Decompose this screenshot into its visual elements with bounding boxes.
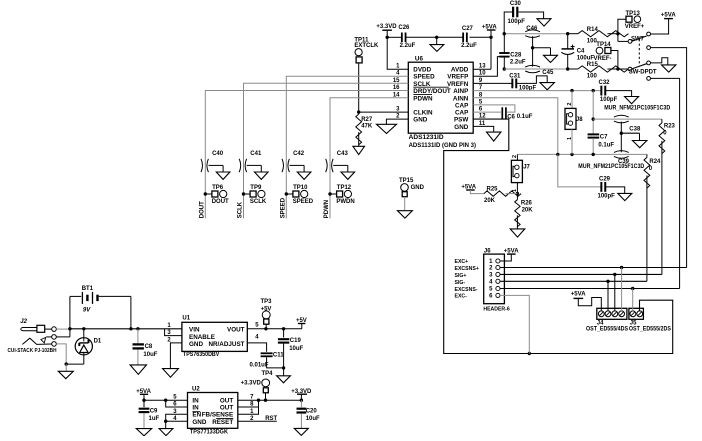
svg-text:C42: C42 xyxy=(293,151,305,157)
svg-text:VIN: VIN xyxy=(189,326,200,333)
capacitor C45 (NFM feedthrough) xyxy=(525,65,540,67)
svg-text:SPEED: SPEED xyxy=(413,74,435,81)
svg-text:TP3: TP3 xyxy=(260,299,272,305)
svg-text:J6: J6 xyxy=(484,248,491,254)
capacitor C11 0.01uF xyxy=(261,352,273,354)
testpoint TP9 SCLK xyxy=(242,192,245,195)
svg-text:SIG-: SIG- xyxy=(455,280,466,286)
wire AINN pin8 xyxy=(473,98,558,155)
svg-text:GND: GND xyxy=(189,341,203,348)
ground switch xyxy=(662,65,676,72)
svg-text:20K: 20K xyxy=(484,198,496,204)
capacitor C7 0.1uF xyxy=(588,133,600,135)
wire SPEED bus xyxy=(286,76,408,218)
wire R24 to SIG- net xyxy=(646,175,648,281)
svg-text:MUR_NFM21PC105F1C3D: MUR_NFM21PC105F1C3D xyxy=(604,105,671,111)
wire SCLK bus xyxy=(244,83,409,218)
svg-text:RESET: RESET xyxy=(212,419,233,426)
resistor R26 20K xyxy=(516,194,518,200)
switch mechanical link (dashed) xyxy=(638,39,640,66)
svg-text:20K: 20K xyxy=(522,208,534,214)
ground mid decoupling node xyxy=(436,37,438,44)
testpoint TP12 PWDN xyxy=(328,192,331,195)
svg-text:U2: U2 xyxy=(192,387,200,393)
svg-text:U1: U1 xyxy=(182,316,190,322)
svg-text:100: 100 xyxy=(587,74,598,80)
wire SIG+ net (J6 pin3) xyxy=(500,273,662,275)
svg-text:SW-DPDT: SW-DPDT xyxy=(629,70,657,76)
wire PSW net to J5 xyxy=(444,119,673,353)
svg-text:C7: C7 xyxy=(600,134,608,140)
svg-text:J2: J2 xyxy=(20,319,27,325)
resistor R27 47K xyxy=(358,112,360,114)
resistor R14 100 xyxy=(568,33,578,35)
svg-text:2.2uF: 2.2uF xyxy=(400,43,416,49)
svg-text:EXC-: EXC- xyxy=(455,294,468,300)
wire battery- down to jack xyxy=(69,296,71,337)
svg-text:CUI-STACK PJ-102BH: CUI-STACK PJ-102BH xyxy=(8,348,57,354)
svg-text:TP12: TP12 xyxy=(337,185,352,191)
wire VREF- net xyxy=(504,68,567,70)
svg-text:+5V: +5V xyxy=(261,307,272,313)
ground U1 xyxy=(163,369,179,378)
wire R27 to ground xyxy=(358,132,360,146)
svg-text:C26: C26 xyxy=(398,25,410,31)
svg-text:100pF: 100pF xyxy=(598,194,616,200)
wire EXCSNS- net (J6 pin5) xyxy=(500,288,680,290)
capacitor C9 1uF xyxy=(143,400,145,407)
svg-text:FB/SENSE: FB/SENSE xyxy=(202,412,234,419)
svg-text:PDWN: PDWN xyxy=(324,200,330,218)
svg-text:RST: RST xyxy=(265,416,277,422)
wire C42 to ground xyxy=(290,164,305,166)
svg-text:+5VA: +5VA xyxy=(661,13,676,19)
svg-text:C41: C41 xyxy=(250,151,262,157)
svg-text:TP4: TP4 xyxy=(261,371,273,377)
ground C20 xyxy=(294,428,308,435)
svg-text:BT1: BT1 xyxy=(82,286,94,292)
svg-text:0.01uF: 0.01uF xyxy=(250,363,269,369)
capacitor C4 100uF xyxy=(567,34,569,49)
resistor R25 20K xyxy=(484,191,521,196)
wire +5VA to R25 xyxy=(470,190,484,194)
svg-text:R25: R25 xyxy=(487,186,499,192)
wire EXC- (J6 pin6) to PSW net xyxy=(500,295,529,353)
svg-text:TP13: TP13 xyxy=(626,11,641,17)
svg-text:OUT: OUT xyxy=(220,405,233,412)
svg-text:SW7: SW7 xyxy=(631,36,645,42)
svg-text:OST_ED555/4DS: OST_ED555/4DS xyxy=(586,326,628,332)
wire C31 to ground xyxy=(517,76,547,84)
capacitor C30 100pF xyxy=(512,7,514,18)
svg-text:TPS76350DBV: TPS76350DBV xyxy=(183,352,219,358)
wire VREFP pin10 to C28 xyxy=(473,57,500,77)
svg-text:C32: C32 xyxy=(598,80,610,86)
ground U6 pin11 xyxy=(487,132,501,141)
resistor R15 100 xyxy=(568,68,578,70)
svg-text:GND: GND xyxy=(454,124,468,131)
svg-text:EN: EN xyxy=(192,412,201,419)
svg-text:R27: R27 xyxy=(361,117,373,123)
svg-text:C45: C45 xyxy=(542,70,554,76)
svg-text:C31: C31 xyxy=(509,73,521,79)
wire U2 IN pin6 tie xyxy=(166,400,188,407)
svg-text:ENABLE: ENABLE xyxy=(189,334,215,341)
wire AINP filter net xyxy=(593,118,662,120)
svg-text:SCLK: SCLK xyxy=(238,201,244,218)
svg-text:C27: C27 xyxy=(462,26,474,32)
svg-text:EXC+: EXC+ xyxy=(455,259,469,265)
wire C26 to C27 mid node xyxy=(406,36,462,38)
svg-text:AINP: AINP xyxy=(453,88,468,95)
capacitor C26 2.2uF xyxy=(401,33,403,43)
svg-text:R26: R26 xyxy=(521,201,533,207)
capacitor C40 xyxy=(201,159,203,172)
wire TP15 to ground xyxy=(404,197,406,211)
svg-text:C40: C40 xyxy=(212,151,224,157)
svg-text:GND: GND xyxy=(413,117,427,124)
capacitor C31 100pF xyxy=(511,79,513,89)
wire switch throw B2 to EXCSNS- column xyxy=(651,78,680,288)
svg-text:0.1uF: 0.1uF xyxy=(517,114,533,120)
wire U6 GND pin2 xyxy=(386,119,408,124)
wire switch throw A2 to EXCSNS+ column xyxy=(651,48,687,268)
ground C32 xyxy=(625,97,639,104)
ground input xyxy=(58,371,73,378)
svg-text:C8: C8 xyxy=(145,344,153,350)
svg-text:U6: U6 xyxy=(415,56,424,63)
wire CAP pin5 xyxy=(473,105,515,112)
svg-text:+3.3VD: +3.3VD xyxy=(241,381,262,387)
capacitor C29 100pF xyxy=(600,182,602,192)
wire R26 to ground xyxy=(516,215,518,229)
connector J4 OST_ED555/4DS xyxy=(597,308,627,319)
wire +5VA to U2 IN xyxy=(143,394,145,400)
svg-text:NR/ADJUST: NR/ADJUST xyxy=(208,341,244,348)
ground C46/C45 tap xyxy=(544,55,558,62)
svg-text:ADS1131ID (GND PIN 3): ADS1131ID (GND PIN 3) xyxy=(409,143,476,149)
wire C41 to ground xyxy=(247,164,262,166)
wire U2 EN pin3 xyxy=(166,414,188,421)
capacitor C19 10uF xyxy=(283,329,285,338)
svg-text:AINN: AINN xyxy=(453,95,469,102)
svg-text:C20: C20 xyxy=(306,409,318,415)
svg-text:100uF: 100uF xyxy=(577,55,595,61)
svg-text:TP14: TP14 xyxy=(596,42,611,48)
ground C38 xyxy=(633,141,647,148)
svg-text:C43: C43 xyxy=(337,151,349,157)
svg-text:GND: GND xyxy=(192,419,206,426)
svg-text:100pF: 100pF xyxy=(508,19,526,25)
svg-text:MUR_NFM21PC105F1C3D: MUR_NFM21PC105F1C3D xyxy=(578,164,645,170)
wire C32 to ground xyxy=(606,91,632,97)
capacitor C20 10uF xyxy=(300,400,302,407)
svg-text:AVDD: AVDD xyxy=(451,67,469,74)
wire AINP tap vertical xyxy=(592,91,594,134)
svg-text:VREFP: VREFP xyxy=(447,74,468,81)
ground C41 xyxy=(255,172,269,179)
svg-text:EXTCLK: EXTCLK xyxy=(354,43,379,49)
wire J4 pin2 to SIG- net xyxy=(607,281,609,311)
ground C43 xyxy=(341,172,355,179)
svg-text:VREF-: VREF- xyxy=(594,56,612,62)
svg-text:R15: R15 xyxy=(587,62,599,68)
wire +5VA to switch throw A1 xyxy=(651,19,669,34)
svg-text:2: 2 xyxy=(567,103,573,106)
svg-text:OST_ED555/2DS: OST_ED555/2DS xyxy=(629,326,671,332)
svg-text:C46: C46 xyxy=(526,26,538,32)
wire +5VA to J4 pin1 xyxy=(578,298,601,312)
wire GND pin11 to ground xyxy=(473,126,494,132)
svg-text:R24: R24 xyxy=(649,159,661,165)
resistor R23 0 xyxy=(661,119,663,123)
svg-text:TP6: TP6 xyxy=(212,185,224,191)
wire VREFN pin9 xyxy=(473,82,512,84)
wire U2 GND pin4 xyxy=(166,420,188,422)
svg-text:VOUT: VOUT xyxy=(227,326,245,333)
ground C31 xyxy=(540,83,554,90)
wire EXCSNS+ net (J6 pin2) xyxy=(500,267,687,269)
ground TP15 xyxy=(397,211,412,218)
capacitor C46 (NFM feedthrough) xyxy=(525,30,540,32)
wire AINP pin7 net xyxy=(473,90,601,92)
ground R26 xyxy=(510,229,525,237)
wire C29 to ground xyxy=(606,187,625,194)
wire U1 GND pin2 xyxy=(170,343,182,369)
wire CAP pin6 xyxy=(473,111,501,113)
ground R27 xyxy=(353,146,365,154)
svg-text:100pF: 100pF xyxy=(600,97,618,103)
svg-text:TP15: TP15 xyxy=(399,178,414,184)
svg-text:13: 13 xyxy=(479,64,486,70)
svg-text:J8: J8 xyxy=(576,117,583,123)
svg-text:D1: D1 xyxy=(94,339,102,345)
svg-text:C30: C30 xyxy=(510,1,522,7)
wire +5VA to AVDD pin13 xyxy=(490,30,492,69)
svg-text:ADS1231ID: ADS1231ID xyxy=(409,135,445,141)
svg-text:CAP: CAP xyxy=(455,102,468,109)
svg-text:C9: C9 xyxy=(150,408,158,414)
svg-text:1: 1 xyxy=(567,137,573,140)
testpoint TP13 VREF+ xyxy=(618,19,626,34)
svg-text:10: 10 xyxy=(479,71,486,77)
svg-text:PSW: PSW xyxy=(454,117,468,124)
wire C46/C45 center tap xyxy=(532,36,534,66)
wire +3.3VD to net xyxy=(386,30,388,37)
ground C42 xyxy=(297,172,311,179)
wire C38 tap to ground xyxy=(620,122,622,153)
wire jack sleeve to ground xyxy=(56,344,66,364)
ground C19/C11 xyxy=(283,368,285,376)
wire C43 to ground xyxy=(333,164,348,166)
svg-text:DOUT: DOUT xyxy=(212,199,229,205)
capacitor C28 2.2uF xyxy=(503,34,505,53)
connector J5 OST_ED555/2DS xyxy=(629,308,644,319)
svg-text:C38: C38 xyxy=(629,126,641,132)
testpoint TP14 VREF- xyxy=(611,51,618,70)
wire bias to C29 xyxy=(558,154,601,187)
svg-text:VREFN: VREFN xyxy=(447,81,469,88)
capacitor C42 xyxy=(282,159,284,172)
svg-text:10uF: 10uF xyxy=(143,352,157,358)
svg-text:R14: R14 xyxy=(587,27,599,33)
wire C40 to ground xyxy=(209,164,224,166)
svg-text:HEADER-6: HEADER-6 xyxy=(483,306,509,312)
diode D1 xyxy=(75,338,92,355)
ground U2 xyxy=(159,429,173,436)
ground C9 xyxy=(136,429,151,436)
wire DOUT bus xyxy=(205,91,408,219)
capacitor C8 10uF xyxy=(137,329,139,344)
wire battery+ down to rail xyxy=(130,296,132,328)
svg-text:EXCSNS+: EXCSNS+ xyxy=(455,266,479,272)
wire RESET / RST xyxy=(238,420,277,422)
svg-text:PWDN: PWDN xyxy=(336,199,354,205)
svg-text:2.2uF: 2.2uF xyxy=(461,43,477,49)
svg-text:CAP: CAP xyxy=(455,110,468,117)
svg-text:TP10: TP10 xyxy=(293,185,308,191)
wire J5 pin1 to EXCSNS- net xyxy=(632,289,634,312)
svg-text:C28: C28 xyxy=(510,52,522,58)
resistor R24 0 xyxy=(646,154,648,157)
wire J4 pin3 to SIG+ net xyxy=(614,274,616,311)
switch SW7 DPDT pole B xyxy=(618,68,628,70)
svg-text:TP9: TP9 xyxy=(250,185,262,191)
wire D1 to ground node xyxy=(66,363,84,365)
svg-text:VREF+: VREF+ xyxy=(625,24,645,30)
capacitor C43 xyxy=(326,159,328,172)
capacitor C32 100pF xyxy=(600,86,602,96)
svg-text:C4: C4 xyxy=(577,48,585,54)
IC U6 ADS1231ID (24-bit ADC) xyxy=(408,62,473,133)
capacitor C39 (NFM feedthrough) xyxy=(614,151,629,153)
wire R23 to SIG+ net xyxy=(661,141,663,275)
svg-text:SCLK: SCLK xyxy=(250,199,267,205)
svg-text:C19: C19 xyxy=(290,338,302,344)
svg-text:SPEED: SPEED xyxy=(281,197,287,218)
wire C27 to +5VA xyxy=(470,36,492,38)
wire J4 pin4 to EXCSNS+ net xyxy=(621,268,623,312)
svg-text:2.2uF: 2.2uF xyxy=(510,60,526,66)
svg-text:EXCSNS-: EXCSNS- xyxy=(455,287,478,293)
ground U6 pin2 xyxy=(377,124,397,133)
ground C40 xyxy=(216,172,230,179)
svg-text:PDWN: PDWN xyxy=(413,95,433,102)
svg-text:9V: 9V xyxy=(83,308,91,314)
connector J8 (jumper) xyxy=(571,91,573,109)
testpoint TP10 SPEED xyxy=(285,192,288,195)
switch SW7 DPDT pole A xyxy=(617,34,619,42)
ground C29 xyxy=(618,193,632,200)
wire jack tip to rail xyxy=(56,328,70,330)
testpoint TP6 DOUT xyxy=(204,192,207,195)
svg-text:+3.3VD: +3.3VD xyxy=(376,24,397,30)
svg-text:1uF: 1uF xyxy=(149,416,160,422)
svg-text:TPS77133DGK: TPS77133DGK xyxy=(190,429,229,435)
capacitor C38 (NFM feedthrough) xyxy=(614,115,629,117)
capacitor C6 0.1uF xyxy=(501,107,503,119)
wire switch throw B1 to ground xyxy=(651,58,668,65)
capacitor C27 2.2uF xyxy=(462,33,464,43)
svg-text:10uF: 10uF xyxy=(306,416,320,422)
wire C30 left to VREF+ net xyxy=(504,12,512,34)
svg-text:SPEED: SPEED xyxy=(293,199,314,205)
wire bias net (J7) xyxy=(517,153,647,155)
wire 3.3V net to C26 xyxy=(387,36,401,38)
connector J7 (jumper) xyxy=(516,154,518,160)
ground C8 xyxy=(130,365,146,374)
svg-text:DVDD: DVDD xyxy=(413,67,431,74)
capacitor C41 xyxy=(239,159,241,172)
svg-text:IN: IN xyxy=(192,405,199,412)
IC U1 TPS76350DBV (5V regulator) xyxy=(182,322,247,351)
connector J6 HEADER-6 xyxy=(484,254,505,304)
IC U2 TPS77133DGK (3.3V regulator) xyxy=(188,393,238,429)
svg-text:10uF: 10uF xyxy=(289,346,303,352)
svg-text:R23: R23 xyxy=(664,123,676,129)
ground C30 xyxy=(537,19,551,26)
wire C30 right to ground xyxy=(518,12,543,19)
wire VIN/ENABLE tie xyxy=(165,329,182,336)
svg-text:C29: C29 xyxy=(599,177,611,183)
svg-text:GND: GND xyxy=(411,185,425,191)
svg-text:J7: J7 xyxy=(523,165,530,171)
wire PDWN bus xyxy=(330,98,408,219)
wire SIG- net (J6 pin4) xyxy=(500,280,647,282)
svg-text:CLKIN: CLKIN xyxy=(413,110,433,117)
wire TP11 to CLKIN xyxy=(358,63,360,112)
svg-text:SIG+: SIG+ xyxy=(455,273,467,279)
svg-text:C11: C11 xyxy=(273,353,284,359)
svg-text:2: 2 xyxy=(512,155,518,158)
svg-text:DOUT: DOUT xyxy=(200,201,206,218)
svg-text:+5VA: +5VA xyxy=(571,292,586,298)
svg-text:47K: 47K xyxy=(361,124,373,130)
wire +5VA to J6 pin1 xyxy=(500,254,511,261)
svg-text:0.1uF: 0.1uF xyxy=(598,142,614,148)
wire main rail xyxy=(70,328,182,330)
wire VREF+ net xyxy=(504,33,568,35)
wire DVDD pin1 xyxy=(387,37,408,69)
